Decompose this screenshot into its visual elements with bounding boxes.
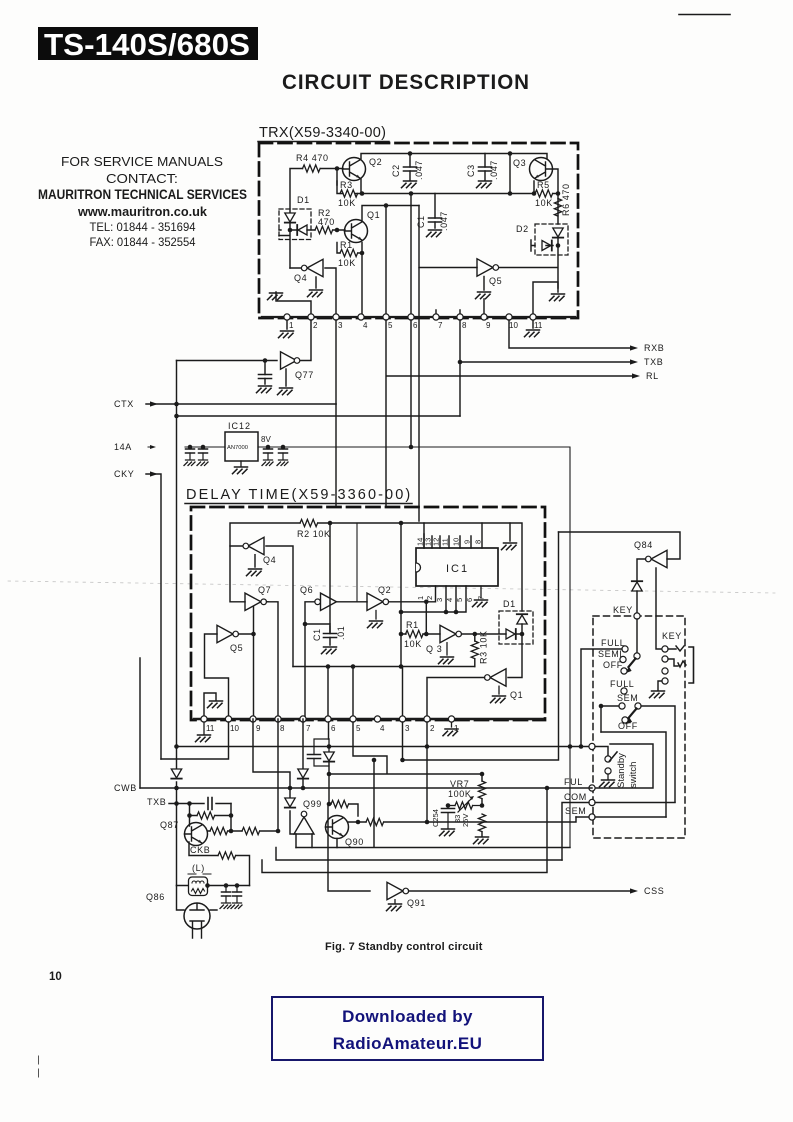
svg-text:R5: R5 [537, 180, 550, 190]
wire base rail y=193.5 [337, 179, 558, 194]
svg-text:FOR SERVICE MANUALS: FOR SERVICE MANUALS [61, 154, 223, 169]
wire Q7 output to pin8 [267, 602, 279, 719]
series capacitor on TXB row [190, 803, 231, 805]
svg-text:C1: C1 [416, 215, 426, 228]
wire ground stub near IC1 pin8 [509, 523, 511, 541]
wire top feed to Q84 [559, 532, 681, 559]
wire Q4d loop [230, 546, 293, 667]
svg-text:R1: R1 [340, 240, 353, 250]
wire Q84 output down [637, 559, 646, 581]
terminal KEY on box edge [634, 613, 640, 619]
svg-text:FUL: FUL [564, 777, 583, 787]
ground under Q1d [498, 686, 500, 694]
IC1 top pin numbers [416, 538, 483, 546]
wire to standby switch [595, 747, 608, 757]
svg-text:C2: C2 [391, 164, 401, 177]
svg-text:SEMI: SEMI [598, 649, 622, 659]
wire Q6 input from pin7 [305, 602, 315, 719]
svg-text:8: 8 [474, 540, 483, 544]
wire pin9 hook to diode column [253, 719, 294, 834]
svg-text:R2 10K: R2 10K [297, 529, 331, 539]
diode on pin7 column (down) [298, 769, 308, 779]
svg-text:Q 3: Q 3 [426, 644, 442, 654]
resistor Q99 row [331, 800, 349, 807]
svg-text:Q6: Q6 [300, 585, 313, 595]
svg-text:CKB: CKB [190, 845, 210, 855]
svg-text:5: 5 [388, 321, 393, 330]
left margin ticks [38, 1056, 40, 1077]
wire y=666.5 row [293, 666, 475, 668]
wire pin11 up hook to ground [533, 282, 558, 317]
svg-text:C1: C1 [312, 628, 322, 641]
wire pin7 column down [302, 719, 304, 768]
wire Q84 triangle bottom to KEY jack [656, 568, 662, 649]
svg-text:Q1: Q1 [510, 690, 523, 700]
pin connector row baseline [262, 316, 575, 318]
scan artifact dotted line [8, 581, 775, 593]
svg-text:OFF: OFF [618, 721, 638, 731]
resistor Q87 collector B [242, 827, 260, 834]
wire bus y=840 [296, 760, 570, 848]
svg-text:6: 6 [331, 724, 336, 733]
wire Q5 ground stub [483, 277, 485, 291]
svg-text:DELAY TIME(X59-3360-00): DELAY TIME(X59-3360-00) [186, 487, 412, 503]
svg-text:10K: 10K [404, 639, 422, 649]
svg-text:Q87: Q87 [160, 820, 179, 830]
wire C1 leads [434, 194, 436, 229]
node R2 right [328, 521, 333, 526]
wire pin1 / pin11 grounds [287, 317, 533, 329]
svg-text:IC12: IC12 [228, 421, 251, 431]
ground under C1 [427, 230, 442, 237]
svg-text:Fig. 7 Standby control circui: Fig. 7 Standby control circuit [325, 941, 483, 953]
diode above Q99 (down) [285, 798, 295, 808]
wire y=774 link from pin5 to VR column [329, 722, 482, 774]
svg-text:11: 11 [534, 321, 543, 330]
svg-text:R3 10K: R3 10K [479, 630, 489, 664]
wire KEY down to wiper [636, 619, 638, 653]
wire Q99 node row y=804 [329, 804, 358, 816]
top right registration line [679, 14, 730, 16]
buffer Q4 (delay) [248, 537, 264, 554]
TRX board outline (dashed) [259, 143, 578, 318]
DELAY board outline (dashed) [191, 507, 545, 720]
resistor R3 10K vertical [471, 641, 478, 659]
svg-text:IC1: IC1 [446, 563, 469, 575]
svg-text:6: 6 [413, 321, 418, 330]
svg-text:1: 1 [416, 596, 425, 600]
svg-text:SEM: SEM [565, 806, 586, 816]
wire IC1 pins 3,4,5 bus y=612 [401, 586, 466, 612]
buffer Q1 (delay, points left) [490, 669, 506, 686]
connector pins 1-11 [284, 314, 290, 320]
capacitor at IC12 in B [202, 447, 204, 459]
svg-text:Q86: Q86 [146, 892, 165, 902]
wire Q4 in/out [290, 268, 336, 317]
capacitor to ground B [236, 886, 238, 903]
node TXB junction [458, 360, 463, 365]
diode block D1 (delay, dashed) [499, 611, 533, 644]
svg-text:5: 5 [455, 598, 464, 602]
capacitor at IC12 in A [189, 447, 191, 459]
svg-text:10K: 10K [338, 198, 356, 208]
svg-text:7: 7 [306, 724, 311, 733]
svg-text:TS-140S/680S: TS-140S/680S [44, 27, 250, 62]
wire standby enclosure [595, 744, 653, 788]
resistor R6 470 (vertical) [554, 199, 561, 217]
wire Q1d input to pin2 [427, 678, 485, 720]
svg-text:12: 12 [432, 538, 441, 546]
wire R2 top row y=523 [230, 523, 424, 548]
svg-text:10: 10 [509, 321, 518, 330]
pin number labels [289, 321, 543, 330]
wire left vertical x=176.5 [176, 361, 178, 804]
wire Q77 ground stub [285, 369, 287, 386]
wire C3 leads [484, 154, 486, 181]
svg-text:KEY: KEY [662, 631, 682, 641]
svg-text:Q2: Q2 [369, 157, 382, 167]
ground under IC12 [240, 461, 242, 466]
svg-text:Q90: Q90 [345, 837, 364, 847]
svg-text:7: 7 [438, 321, 443, 330]
svg-text:9: 9 [486, 321, 491, 330]
resistor row y=815.5 [190, 804, 232, 832]
resistor R1 10K (delay) [401, 633, 440, 635]
diode D1b (left) [297, 225, 307, 235]
wire pin3/pin2/pin6 columns below board [329, 722, 428, 760]
wire Q77 output to pin2 [300, 320, 312, 361]
capacitor C3 .047 [479, 167, 492, 171]
svg-text:Q77: Q77 [295, 370, 314, 380]
svg-text:CTX: CTX [114, 399, 134, 409]
ground under D2 column [550, 294, 565, 301]
wire C2 leads [409, 154, 411, 181]
resistor Q87 collector A [210, 827, 228, 834]
node y=416 left [174, 414, 179, 419]
svg-text:3: 3 [435, 598, 444, 602]
wire IC1 pin7 ground [480, 586, 482, 598]
wire SEM left/right [576, 816, 666, 818]
svg-text:switch: switch [628, 762, 639, 788]
wire pin8 stub of IC1 [481, 523, 483, 548]
wire pin6 column up to rail [410, 194, 412, 318]
svg-text:.047: .047 [439, 211, 449, 231]
svg-text:CSS: CSS [644, 886, 664, 896]
wire row to pins 3,5,6 [328, 667, 403, 720]
ground below pin11 [203, 722, 205, 734]
svg-text:9: 9 [463, 540, 472, 544]
jack sleeve contact [662, 668, 668, 674]
svg-text:4: 4 [363, 321, 368, 330]
svg-text:Q84: Q84 [634, 540, 653, 550]
wire pin5 to RL [386, 320, 632, 507]
svg-text:Q99: Q99 [303, 799, 322, 809]
wire Q5 output / D2 column [499, 194, 558, 289]
pin row edge reinforced [194, 718, 543, 720]
capacitor C2 .047 [404, 167, 417, 171]
svg-text:Q4: Q4 [294, 273, 307, 283]
svg-text:1: 1 [454, 724, 459, 733]
wire Q3 emitter to R5 node [534, 169, 558, 194]
wire Q77 input row [177, 360, 278, 362]
svg-text:Standby: Standby [616, 753, 627, 788]
wire x=419 column down [418, 268, 420, 521]
transistor Q2 [343, 158, 366, 181]
buffer Q5 (points right) [477, 259, 493, 276]
svg-text:R4 470: R4 470 [296, 153, 329, 163]
diode D1b delay (right) [506, 629, 516, 639]
wire SEM contact left [601, 705, 619, 707]
svg-text:470: 470 [318, 217, 335, 227]
svg-text:CWB: CWB [114, 783, 137, 793]
svg-text:TEL: 01844 - 351694: TEL: 01844 - 351694 [90, 220, 196, 234]
resistor R5 10K [535, 190, 553, 197]
wire IC12 input rail [185, 446, 225, 448]
buffer Q4 (points left) [307, 259, 323, 276]
buffer Q3 (delay) [440, 625, 456, 642]
svg-text:10: 10 [49, 971, 62, 983]
wire left stub vertical x=140 [139, 658, 141, 788]
svg-text:2: 2 [313, 321, 318, 330]
capacitor at IC12 out B [282, 447, 284, 459]
ground under Q4 [308, 290, 323, 297]
wire Q3 output to D1d [462, 633, 523, 635]
svg-text:11: 11 [206, 724, 215, 733]
wire Q4d ground stub [254, 555, 256, 567]
wire D1 lower / R2 row to Q1 base [279, 223, 345, 268]
wire wiper2 right to COM column [641, 706, 675, 802]
svg-text:Q3: Q3 [513, 158, 526, 168]
svg-text:RL: RL [646, 371, 659, 381]
diode D2a (down) [553, 228, 563, 238]
wire C1d branch [305, 624, 330, 645]
svg-text:4: 4 [445, 598, 454, 602]
svg-text:11: 11 [441, 538, 450, 546]
svg-text:5: 5 [356, 724, 361, 733]
wire x=357 top link [356, 523, 358, 602]
capacitor at IC12 out A [267, 447, 269, 459]
svg-text:Q2: Q2 [378, 585, 391, 595]
switch 1 wiper [634, 653, 640, 659]
resistor R2 470 [315, 226, 333, 233]
wire CKY row to pin10 [161, 722, 229, 759]
diode on x=176.5 column (down) [171, 769, 181, 779]
svg-text:8: 8 [280, 724, 285, 733]
IC1 bottom pin numbers [416, 596, 486, 602]
svg-text:1: 1 [289, 321, 294, 330]
svg-text:7: 7 [477, 596, 486, 600]
diode block D2 (dashed) [535, 224, 568, 255]
svg-text:TXB: TXB [644, 357, 663, 367]
wire Q4 ground stub [315, 277, 317, 288]
buffer Q84 (points left) [651, 550, 667, 567]
svg-text:Q5: Q5 [489, 276, 502, 286]
svg-text:COM: COM [564, 792, 587, 802]
capacitor x=314 [314, 739, 329, 766]
resistor R4 470 [303, 165, 321, 172]
wire Q90 collector row y=822 [337, 822, 428, 848]
svg-text:FULL: FULL [601, 638, 625, 648]
resistor R1 10K [340, 249, 358, 256]
wire R1 row / emitter to pin4 [337, 243, 362, 318]
svg-text:CONTACT:: CONTACT: [106, 171, 178, 186]
svg-text:TRX(X59-3340-00): TRX(X59-3340-00) [259, 125, 388, 141]
pin number labels [206, 724, 459, 733]
TXB arrow [630, 359, 638, 364]
wire node row y=885.5 [177, 885, 250, 887]
wire Q6 out to Q2d [337, 601, 368, 603]
capacitor C1 .01 (delay) [324, 634, 337, 638]
wire top row to D1 column [424, 523, 522, 611]
jack sleeve bar [689, 647, 694, 683]
wire Q7 feedback to Q5 output [253, 607, 255, 720]
ground under pin 1 [279, 331, 294, 338]
resistor VR bottom vertical [478, 814, 485, 832]
svg-text:.047: .047 [414, 160, 424, 180]
svg-text:8V: 8V [261, 435, 271, 444]
wire Q91 output to CSS [409, 890, 630, 892]
RL arrow [632, 373, 640, 378]
wire pin row stubs [361, 299, 484, 317]
wire Q87 collector row y=831 [208, 719, 279, 831]
svg-text:Q5: Q5 [230, 643, 243, 653]
svg-text:VR7: VR7 [450, 779, 469, 789]
IC12 regulator AN7000 [225, 432, 258, 461]
jack tip contact [662, 646, 668, 652]
svg-text:6: 6 [465, 598, 474, 602]
svg-text:9: 9 [256, 724, 261, 733]
svg-text:Q7: Q7 [258, 585, 271, 595]
svg-text:FULL: FULL [610, 679, 634, 689]
wire CTX to pin3 [335, 320, 337, 404]
buffer Q7 [264, 601, 269, 603]
KEY unit outline (dashed) [593, 616, 685, 838]
svg-text:3: 3 [405, 724, 410, 733]
wire FULL contact to left bus [581, 649, 622, 747]
wire pin2 ground hook [276, 292, 311, 317]
switch 2 wiper [635, 703, 641, 709]
svg-text:D2: D2 [516, 224, 529, 234]
wire x=558.5 down to switch row [403, 532, 559, 760]
jack ground contact [662, 678, 668, 684]
svg-text:OFF: OFF [603, 660, 623, 670]
svg-text:2: 2 [425, 596, 434, 600]
svg-text:R1: R1 [406, 620, 419, 630]
svg-text:AN7000: AN7000 [227, 445, 248, 451]
wire vertical x=330 R2 to C1d [329, 523, 331, 632]
IC1 [416, 548, 498, 586]
diode block D1 (dashed) [279, 209, 311, 240]
svg-text:SEM: SEM [617, 693, 638, 703]
wire Q91 input column [328, 804, 370, 891]
wire D1 node down to Q1d [508, 624, 522, 678]
transistor Q87 [185, 823, 208, 846]
resistor VR top vertical [481, 774, 483, 836]
transistor Q90 [326, 816, 349, 839]
transistor Q1 [345, 220, 368, 243]
wire pin10 to RXB [509, 320, 630, 348]
ground under C3 [477, 181, 492, 188]
ground under Q5 [476, 292, 491, 299]
buffer Q6 [321, 593, 337, 610]
node pin6 column on 8V rail [410, 320, 412, 447]
svg-text:4: 4 [380, 724, 385, 733]
svg-text:10: 10 [230, 724, 239, 733]
svg-text:CKY: CKY [114, 469, 134, 479]
title bar TS-140S/680S [38, 27, 258, 60]
svg-text:Q1: Q1 [367, 210, 380, 220]
svg-text:R3: R3 [340, 180, 353, 190]
wire Q5 input from Q1 collector [419, 206, 477, 268]
resistor Q90 row [366, 818, 384, 825]
svg-text:C3: C3 [466, 164, 476, 177]
diode D1a delay (up) [517, 614, 527, 624]
diode D2b (right) [542, 241, 552, 251]
svg-text:FAX: 01844 - 352554: FAX: 01844 - 352554 [90, 235, 196, 249]
resistor R3 10K [340, 190, 358, 197]
resistor R2 10K (delay) [300, 519, 318, 526]
IC1 top pin stubs 14-9 [424, 534, 471, 548]
svg-text:8: 8 [462, 321, 467, 330]
transistor Q3 [530, 158, 553, 181]
capacitor C254 33/25V [446, 803, 451, 808]
svg-text:Q91: Q91 [407, 898, 426, 908]
potentiometer VR7 [448, 805, 455, 807]
capacitor to ground A [225, 886, 227, 903]
wire COM left/right [562, 803, 675, 861]
svg-text:RXB: RXB [644, 343, 664, 353]
ground under cap [257, 386, 272, 393]
wire Q5d output [239, 633, 254, 635]
capacitor at Q77 input [259, 375, 272, 379]
wire pin1 ground below [451, 722, 453, 727]
svg-text:Q4: Q4 [263, 555, 276, 565]
wire pin11 ground hook [204, 693, 216, 719]
svg-text:10K: 10K [338, 258, 356, 268]
svg-text:10K: 10K [535, 198, 553, 208]
svg-text:.01: .01 [336, 626, 346, 640]
downloaded box [271, 996, 544, 1061]
svg-text:(L): (L) [192, 863, 205, 873]
svg-text:TXB: TXB [147, 797, 166, 807]
ground under C2 [402, 181, 417, 188]
wire x=401 column [400, 523, 402, 667]
RXB arrow [630, 345, 638, 350]
diode x=329 (down) [328, 739, 330, 751]
resistor CKB row [218, 852, 236, 859]
mauritron service text block [38, 154, 247, 249]
svg-text:R6 470: R6 470 [561, 183, 571, 216]
diode at Q84 output (up) [632, 581, 642, 591]
ground under Q91 [394, 900, 396, 903]
svg-text:2: 2 [430, 724, 435, 733]
wire TRX pin3 column down [335, 404, 337, 507]
buffer Q77 [281, 352, 297, 369]
buffer Q5 (delay) [217, 625, 233, 642]
wire Q2 collector to top rail [361, 154, 547, 159]
svg-text:D1: D1 [503, 599, 516, 609]
wire Q2d output to IC1 pins 1,2 [389, 586, 436, 634]
svg-text:3: 3 [338, 321, 343, 330]
ground under Q77 [278, 388, 293, 395]
wire pin8 to TXB and down to CTX [460, 320, 630, 416]
svg-text:D1: D1 [297, 195, 310, 205]
wire standby feed y=746.5 [177, 746, 590, 748]
svg-text:CIRCUIT DESCRIPTION: CIRCUIT DESCRIPTION [282, 70, 530, 94]
wire Q1 collector to pin5 column [362, 206, 419, 318]
svg-text:14A: 14A [114, 442, 132, 452]
diode D1a (down) [285, 213, 295, 223]
